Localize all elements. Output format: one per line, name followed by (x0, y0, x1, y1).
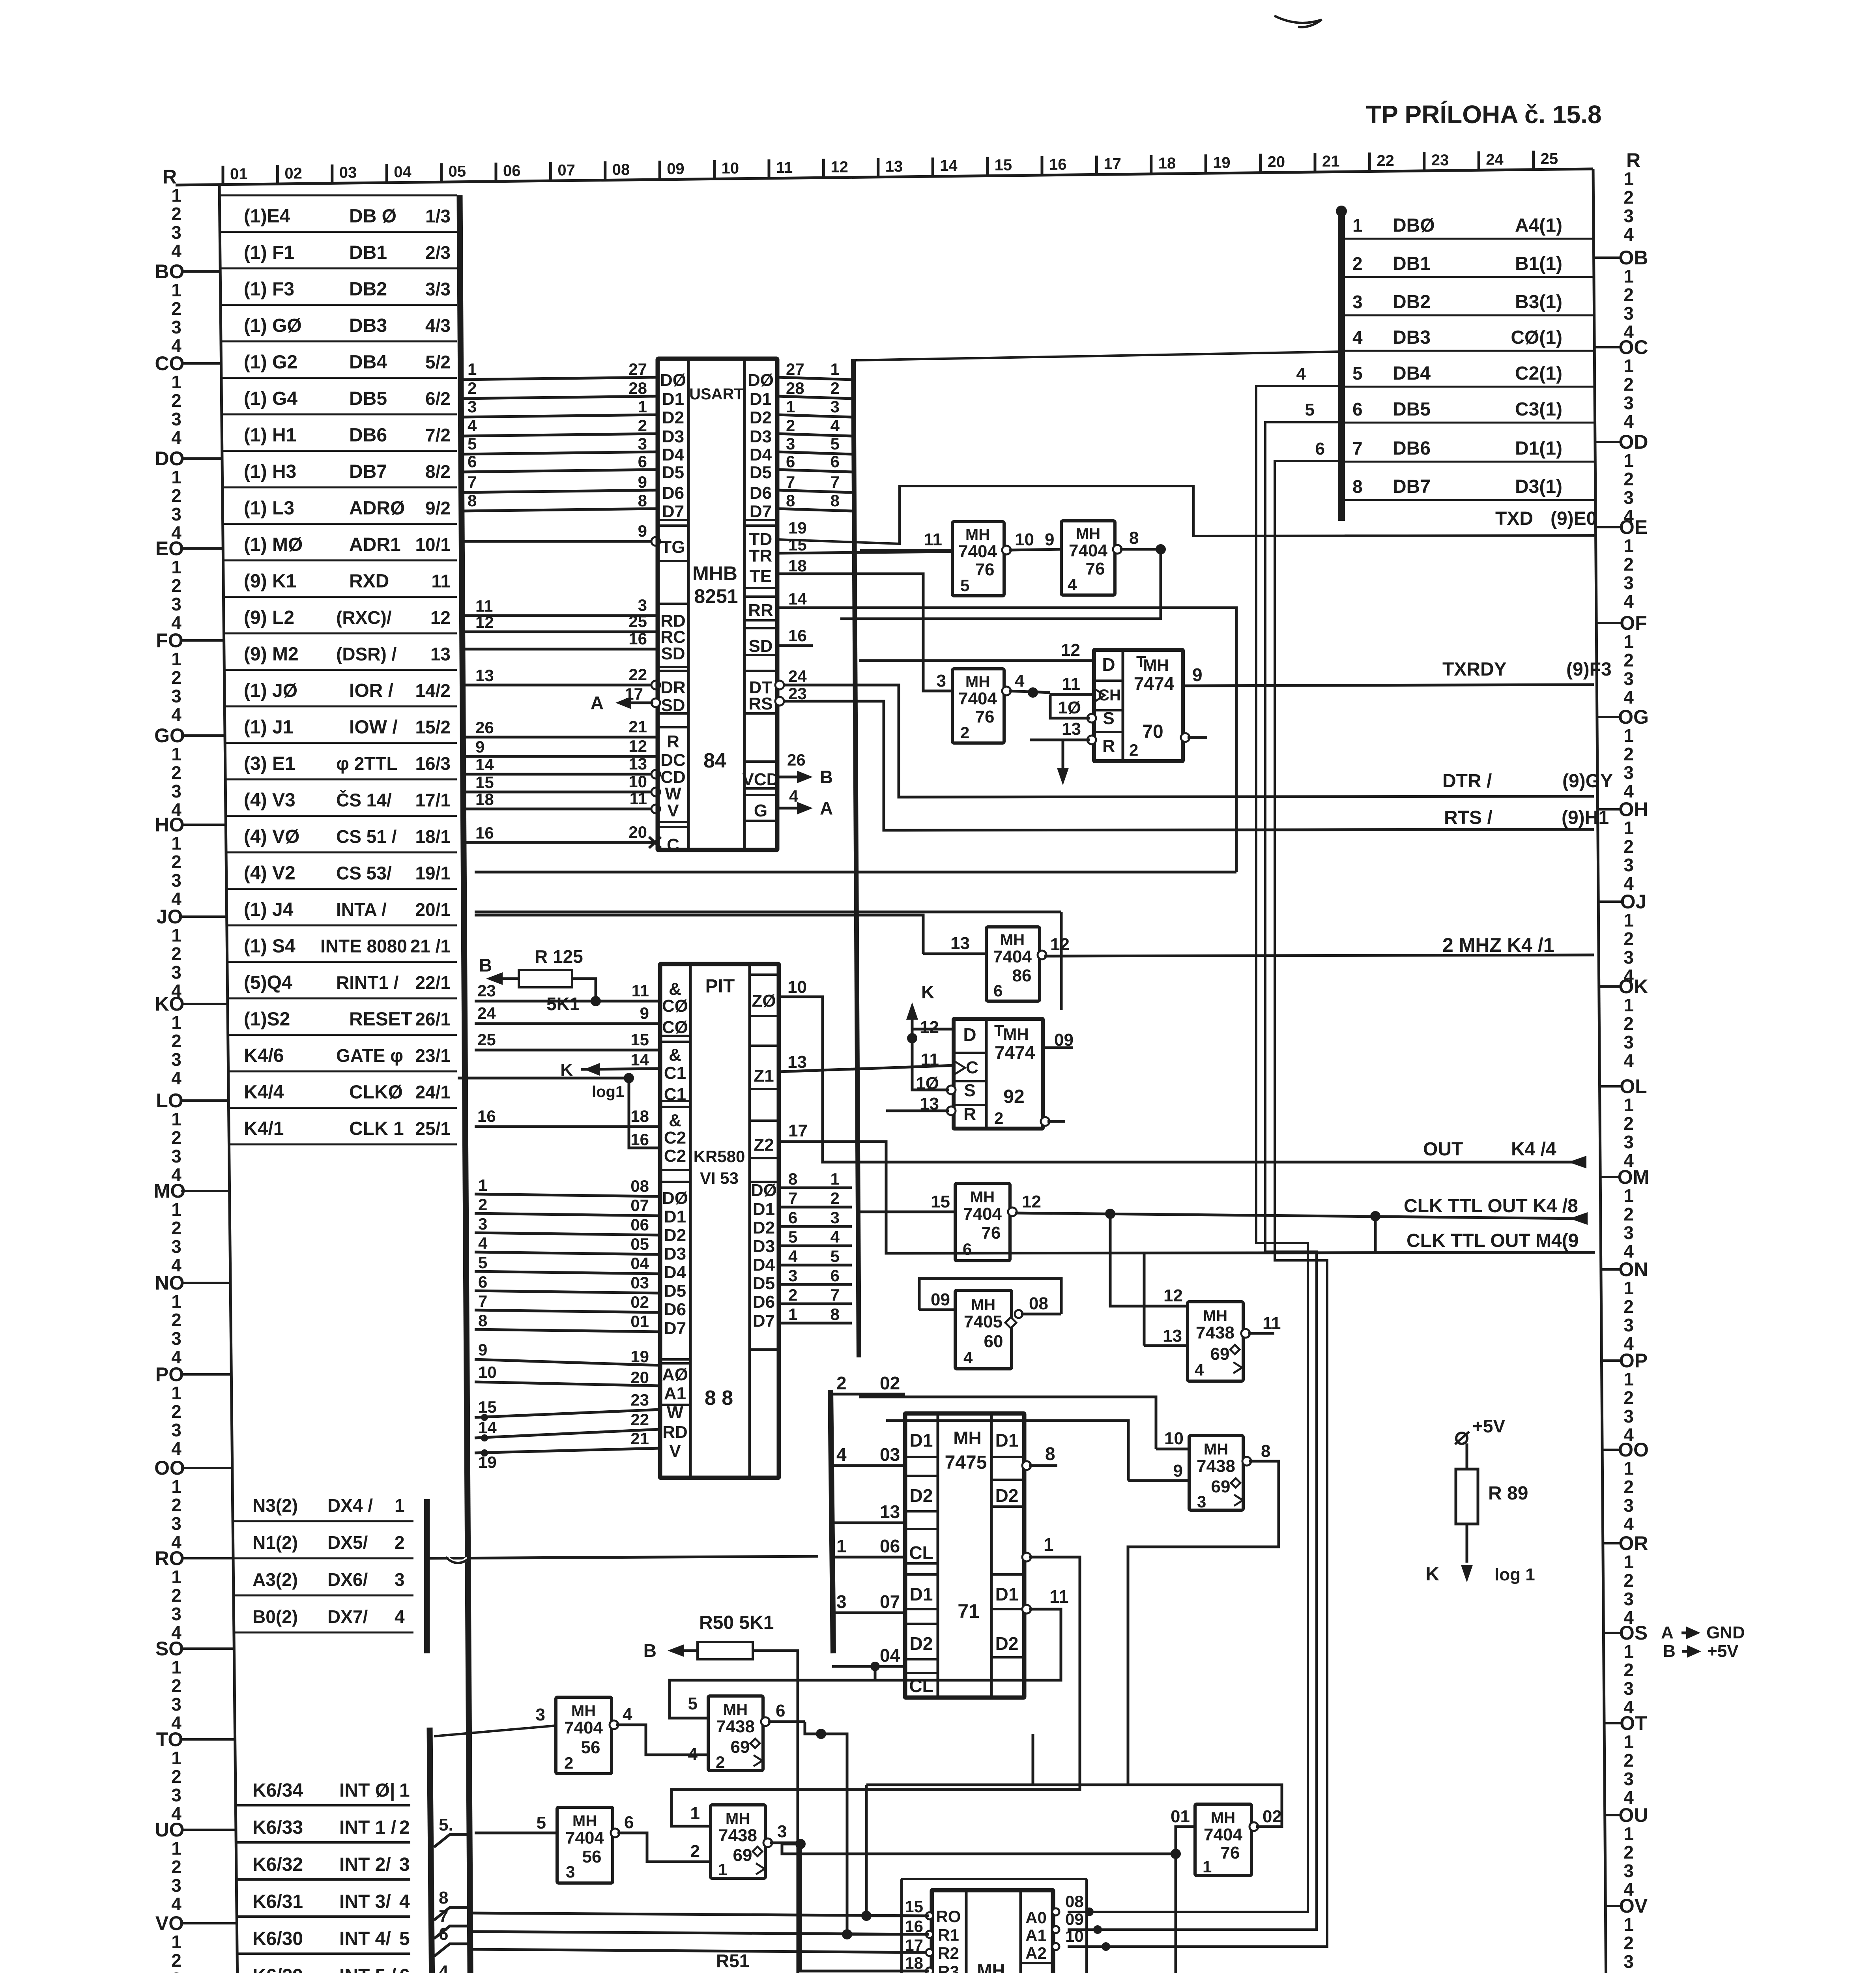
svg-text:18: 18 (905, 1954, 923, 1972)
svg-text:W: W (665, 784, 681, 803)
svg-text:MH: MH (965, 526, 990, 543)
svg-text:W: W (667, 1403, 683, 1422)
wire gate4 out down to 7474 D (1160, 549, 1162, 568)
svg-text:A: A (1661, 1623, 1674, 1642)
svg-text:7438: 7438 (1196, 1323, 1234, 1342)
net INT 3/ input row (237, 1915, 410, 1918)
wires bus to PIT A0 A1 (475, 1359, 660, 1365)
svg-text:2: 2 (171, 1585, 181, 1606)
svg-text:3: 3 (1623, 303, 1634, 324)
svg-text:ADR1: ADR1 (349, 534, 401, 555)
svg-text:1: 1 (788, 1305, 797, 1323)
svg-text:D5: D5 (750, 463, 772, 482)
svg-text:2: 2 (830, 379, 840, 397)
svg-text:12: 12 (1022, 1192, 1041, 1211)
svg-text:SD: SD (748, 636, 772, 656)
svg-text:6: 6 (788, 1208, 797, 1227)
svg-text:DBØ: DBØ (1393, 215, 1435, 236)
svg-text:CH: CH (1098, 687, 1121, 704)
svg-text:8: 8 (786, 491, 795, 510)
svg-text:1: 1 (1623, 1278, 1634, 1298)
svg-text:CO: CO (155, 352, 185, 374)
svg-text:1: 1 (478, 1176, 487, 1194)
svg-text:3: 3 (399, 1854, 410, 1875)
svg-text:3: 3 (1352, 292, 1363, 312)
svg-text:4: 4 (1623, 1514, 1634, 1534)
svg-text:D2: D2 (995, 1485, 1019, 1506)
svg-text:GO: GO (154, 724, 185, 747)
wires INTA INTE long (475, 911, 1061, 913)
svg-text:07: 07 (557, 161, 575, 179)
svg-text:MH: MH (971, 1296, 995, 1314)
svg-text:D3(1): D3(1) (1515, 476, 1562, 497)
svg-text:S: S (964, 1081, 975, 1100)
svg-text:4: 4 (171, 1438, 181, 1459)
svg-text:(1)S2: (1)S2 (244, 1009, 290, 1030)
svg-text:D1: D1 (995, 1584, 1019, 1604)
svg-text:MH: MH (726, 1810, 750, 1827)
svg-text:3: 3 (638, 596, 647, 614)
wires USART right D0-D7 to bus2 (777, 377, 852, 380)
svg-text:D4: D4 (753, 1255, 775, 1275)
svg-text:2/3: 2/3 (425, 242, 451, 263)
svg-text:B: B (643, 1640, 657, 1661)
svg-text:3: 3 (468, 397, 477, 416)
svg-text:5/2: 5/2 (425, 352, 451, 373)
net DB7 output row (1345, 499, 1595, 501)
svg-text:6: 6 (830, 452, 840, 471)
wires 7474-2 inputs (859, 659, 1094, 662)
right DB output table bus bar (1338, 209, 1345, 521)
svg-text:1: 1 (171, 1291, 181, 1312)
svg-text:03: 03 (630, 1273, 649, 1292)
net DB3 output row (1345, 350, 1594, 352)
svg-text:TXD: TXD (1495, 508, 1533, 529)
svg-text:6: 6 (468, 452, 477, 471)
svg-text:R: R (667, 732, 679, 751)
bus bar vertical main (460, 195, 472, 1973)
svg-text:DØ: DØ (662, 1189, 688, 1208)
svg-text:B: B (1663, 1642, 1676, 1661)
svg-text:4: 4 (171, 427, 181, 448)
svg-text:V: V (669, 1441, 681, 1461)
svg-text:1: 1 (1623, 995, 1634, 1015)
svg-text:25/1: 25/1 (415, 1118, 451, 1139)
svg-text:3: 3 (1623, 1222, 1634, 1243)
svg-text:C3(1): C3(1) (1515, 399, 1562, 420)
svg-text:2: 2 (171, 1495, 181, 1515)
svg-text:2: 2 (171, 943, 181, 964)
svg-text:MH: MH (1211, 1809, 1235, 1827)
svg-text:MH: MH (1000, 931, 1025, 949)
wire nest 7404-1 input down to 7474-70 CH (1176, 1827, 1195, 1854)
svg-text:3: 3 (836, 1591, 847, 1612)
svg-text:LO: LO (156, 1089, 183, 1112)
svg-text:D: D (1102, 654, 1115, 675)
svg-text:A0: A0 (1025, 1908, 1047, 1927)
7475 out 8 (1022, 1461, 1031, 1470)
svg-text:(9)H1: (9)H1 (1562, 807, 1609, 828)
svg-text:5.: 5. (439, 1815, 453, 1834)
svg-text:10: 10 (628, 772, 647, 791)
svg-text:VO: VO (155, 1912, 184, 1934)
svg-text:10: 10 (478, 1363, 497, 1381)
svg-text:1: 1 (1203, 1857, 1212, 1876)
svg-text:D2: D2 (995, 1633, 1019, 1654)
svg-text:GND: GND (1706, 1623, 1745, 1642)
svg-text:K4/1: K4/1 (244, 1118, 284, 1139)
svg-text:TXRDY: TXRDY (1442, 659, 1507, 680)
svg-text:DX5/: DX5/ (327, 1532, 368, 1553)
net DB6 output row (1345, 461, 1595, 463)
svg-text:18: 18 (475, 790, 494, 809)
wire nest R50 to R5 (782, 1844, 1176, 1854)
svg-text:OUT: OUT (1423, 1139, 1463, 1160)
svg-text:log1: log1 (592, 1083, 624, 1101)
svg-text:OS: OS (1619, 1622, 1648, 1644)
svg-text:C: C (667, 835, 679, 855)
frame border (176, 169, 1593, 185)
svg-text:07: 07 (630, 1196, 649, 1215)
svg-text:RS: RS (748, 694, 772, 713)
svg-text:21: 21 (628, 717, 647, 736)
svg-text:UO: UO (155, 1819, 185, 1841)
svg-text:HO: HO (155, 814, 185, 836)
svg-text:DØ: DØ (748, 371, 774, 390)
svg-text:ADRØ: ADRØ (349, 498, 405, 519)
svg-text:1: 1 (1623, 1552, 1634, 1572)
svg-text:5: 5 (1305, 400, 1315, 419)
svg-text:20/1: 20/1 (415, 899, 451, 920)
wire nest out3 to R3 (801, 1844, 929, 1971)
svg-text:MH: MH (977, 1960, 1005, 1973)
svg-text:INT 3/: INT 3/ (339, 1891, 391, 1912)
svg-text:3: 3 (171, 222, 181, 243)
svg-text:4: 4 (468, 416, 477, 435)
wire A1 route up to DB5 (1068, 422, 1341, 1930)
svg-text:D7: D7 (750, 502, 772, 521)
inverter MH7404 56 gate3 (557, 1807, 613, 1883)
svg-text:12: 12 (628, 737, 647, 755)
svg-text:04: 04 (394, 163, 411, 181)
svg-text:1: 1 (1623, 168, 1634, 189)
svg-text:01: 01 (630, 1312, 649, 1331)
svg-text:6: 6 (1352, 399, 1363, 419)
svg-text:8/2: 8/2 (425, 461, 451, 482)
svg-text:CØ: CØ (662, 996, 688, 1016)
svg-text:28: 28 (786, 379, 804, 397)
svg-text:3: 3 (1623, 1406, 1634, 1426)
svg-text:(1) G2: (1) G2 (244, 352, 297, 373)
svg-text:02: 02 (284, 165, 302, 182)
wires bus to PIT control (475, 1000, 660, 1003)
wire A0 route up to DB4 (1068, 386, 1341, 1912)
inverter MH7404 76 gate1 (1195, 1804, 1251, 1876)
svg-text:7: 7 (830, 1286, 840, 1304)
svg-text:1: 1 (1623, 910, 1634, 930)
stubs INT bar to bus (434, 1834, 469, 1847)
svg-text:12: 12 (1163, 1286, 1183, 1305)
svg-text:RD: RD (662, 1423, 688, 1442)
svg-text:3: 3 (171, 594, 181, 614)
net DB4 output row (1345, 386, 1595, 388)
svg-text:7: 7 (830, 473, 840, 491)
svg-text:B0(2): B0(2) (253, 1606, 298, 1627)
svg-text:11: 11 (1263, 1314, 1281, 1333)
svg-text:01: 01 (1171, 1807, 1190, 1826)
svg-text:1: 1 (718, 1860, 727, 1879)
svg-text:2: 2 (960, 723, 969, 742)
pin Q 9 / net TXRDY (1183, 685, 1594, 686)
svg-text:(1) H3: (1) H3 (244, 461, 296, 482)
svg-text:14: 14 (940, 157, 958, 174)
svg-text:1: 1 (690, 1804, 700, 1823)
svg-text:+5V: +5V (1707, 1642, 1739, 1661)
svg-text:15: 15 (905, 1897, 923, 1916)
svg-text:1: 1 (171, 833, 181, 854)
svg-text:OH: OH (1619, 798, 1648, 820)
svg-text:D: D (963, 1024, 976, 1045)
svg-text:1: 1 (171, 1567, 181, 1587)
svg-text:05: 05 (630, 1235, 649, 1253)
svg-text:OO: OO (154, 1457, 185, 1479)
svg-text:15: 15 (475, 773, 494, 792)
svg-text:IOW /: IOW / (349, 717, 398, 738)
svg-text:6: 6 (1315, 439, 1325, 459)
svg-text:3: 3 (1623, 393, 1634, 413)
svg-text:3: 3 (171, 1236, 181, 1257)
svg-text:1: 1 (171, 1932, 181, 1952)
svg-text:9: 9 (475, 738, 484, 756)
svg-text:3: 3 (171, 504, 181, 524)
svg-text:9: 9 (640, 1004, 649, 1022)
wire CL 13 from gate (831, 1522, 834, 1524)
svg-text:3: 3 (478, 1215, 487, 1233)
svg-text:8: 8 (1352, 476, 1363, 497)
svg-text:6: 6 (638, 452, 647, 471)
svg-text:3: 3 (937, 671, 946, 691)
svg-text:2: 2 (171, 1675, 181, 1696)
svg-text:16: 16 (1049, 156, 1067, 173)
svg-text:13: 13 (787, 1052, 807, 1072)
svg-text:&: & (669, 1045, 681, 1065)
svg-text:8251: 8251 (694, 585, 738, 607)
svg-text:69: 69 (731, 1737, 750, 1757)
svg-text:71: 71 (958, 1600, 980, 1622)
svg-text:69: 69 (1211, 1477, 1231, 1496)
svg-text:15: 15 (630, 1030, 649, 1049)
svg-text:7474: 7474 (995, 1042, 1035, 1063)
net INT 4/ input row (237, 1952, 410, 1955)
svg-text:1: 1 (786, 397, 795, 416)
svg-text:2: 2 (994, 1109, 1003, 1127)
svg-text:3: 3 (171, 317, 181, 337)
svg-text:2: 2 (478, 1195, 487, 1214)
svg-text:7: 7 (786, 473, 795, 491)
svg-text:14: 14 (630, 1050, 649, 1069)
svg-text:D3: D3 (753, 1237, 775, 1256)
svg-text:69: 69 (733, 1846, 752, 1865)
svg-text:2: 2 (171, 485, 181, 506)
svg-text:PO: PO (155, 1363, 184, 1385)
svg-text:K6/31: K6/31 (253, 1891, 303, 1912)
svg-text:DB5: DB5 (1393, 399, 1431, 420)
svg-text:OF: OF (1620, 612, 1647, 634)
svg-text:R 89: R 89 (1488, 1483, 1528, 1504)
svg-text:MH: MH (1003, 1025, 1029, 1043)
DX input table (233, 1520, 413, 1522)
svg-text:16: 16 (905, 1917, 923, 1936)
svg-text:28: 28 (628, 379, 647, 397)
svg-text:4: 4 (1623, 687, 1634, 708)
svg-text:MH: MH (1203, 1307, 1227, 1325)
svg-text:15: 15 (931, 1192, 950, 1211)
svg-text:R51: R51 (716, 1951, 749, 1971)
svg-text:4: 4 (399, 1891, 410, 1912)
svg-text:7404: 7404 (958, 542, 997, 561)
svg-text:7404: 7404 (993, 947, 1032, 966)
svg-text:SD: SD (661, 644, 685, 663)
svg-text:22: 22 (1377, 152, 1394, 170)
svg-text:6: 6 (963, 1240, 972, 1258)
svg-text:D7: D7 (753, 1311, 775, 1331)
svg-text:(9) M2: (9) M2 (244, 644, 299, 665)
svg-text:RINT1 /: RINT1 / (336, 972, 399, 993)
svg-text:3: 3 (171, 1785, 181, 1805)
svg-text:OB: OB (1619, 247, 1648, 269)
svg-text:21 /1: 21 /1 (410, 936, 451, 957)
svg-text:14: 14 (478, 1418, 497, 1437)
svg-text:08: 08 (1029, 1294, 1048, 1313)
wires bus to PIT W RD V (475, 1410, 660, 1417)
svg-text:2: 2 (171, 1401, 181, 1422)
svg-text:1: 1 (830, 360, 840, 378)
svg-text:76: 76 (975, 560, 995, 579)
svg-text:7404: 7404 (564, 1718, 603, 1737)
svg-text:2: 2 (171, 1310, 181, 1330)
svg-text:05: 05 (449, 163, 466, 180)
svg-text:1: 1 (1044, 1534, 1054, 1555)
svg-text:C2(1): C2(1) (1515, 363, 1562, 384)
svg-text:8: 8 (1261, 1441, 1270, 1461)
svg-text:C1: C1 (664, 1063, 686, 1083)
svg-text:20: 20 (630, 1368, 649, 1387)
svg-text:B: B (479, 955, 492, 975)
wires bus to PIT D0-D7 (475, 1194, 660, 1196)
svg-text:DB2: DB2 (1393, 292, 1431, 313)
svg-text:4: 4 (1623, 224, 1634, 245)
svg-text:1: 1 (171, 1012, 181, 1033)
svg-text:DB Ø: DB Ø (349, 206, 397, 227)
svg-text:K4/6: K4/6 (244, 1045, 284, 1066)
wire nest 7404-1 loop (1033, 1734, 1282, 1827)
svg-text:8: 8 (830, 491, 840, 510)
wire nest h4523 to R0 (866, 1785, 929, 1916)
svg-text:7404: 7404 (958, 689, 997, 708)
svg-text:8: 8 (439, 1888, 448, 1907)
nand MH7438 69 gate1 (708, 1696, 763, 1771)
svg-text:14: 14 (788, 590, 807, 608)
svg-text:9/2: 9/2 (425, 498, 451, 519)
svg-text:2: 2 (830, 1189, 840, 1207)
svg-text:K6/33: K6/33 (253, 1817, 303, 1838)
wires bus to USART control pins (462, 540, 658, 543)
svg-text:3: 3 (171, 1604, 181, 1624)
svg-text:13: 13 (628, 754, 647, 773)
svg-text:&: & (669, 1111, 681, 1130)
svg-text:CLK 1: CLK 1 (349, 1118, 404, 1139)
svg-text:09: 09 (667, 160, 685, 178)
svg-text:MH: MH (572, 1812, 597, 1830)
svg-text:G: G (754, 801, 767, 820)
net INT 1 / input row (236, 1841, 410, 1844)
svg-text:19: 19 (1213, 154, 1231, 171)
svg-text:3: 3 (1623, 1951, 1634, 1972)
svg-text:RO: RO (155, 1547, 185, 1569)
IC MH3214 68 outer box (902, 1879, 1087, 1973)
svg-text:(1) J1: (1) J1 (244, 717, 293, 738)
wires bus to USART D0-D7 (462, 377, 658, 380)
svg-text:MH: MH (1204, 1441, 1228, 1458)
svg-text:D7: D7 (664, 1319, 686, 1338)
svg-text:11: 11 (431, 571, 451, 592)
svg-text:1: 1 (638, 397, 647, 416)
svg-text:02: 02 (1263, 1807, 1282, 1826)
svg-text:8: 8 (830, 1305, 840, 1323)
svg-text:84: 84 (703, 749, 726, 772)
svg-text:2: 2 (171, 1950, 181, 1971)
svg-text:23: 23 (1431, 152, 1449, 169)
3214 outputs A0 A1 A2 (1052, 1908, 1059, 1915)
svg-text:92: 92 (1003, 1086, 1024, 1107)
left input signal table (219, 195, 457, 197)
svg-text:5: 5 (788, 1228, 797, 1246)
svg-text:OM: OM (1618, 1166, 1650, 1188)
svg-text:OJ: OJ (1620, 891, 1647, 913)
svg-text:ZØ: ZØ (752, 991, 776, 1011)
svg-text:C1: C1 (664, 1085, 686, 1104)
svg-text:7474: 7474 (1134, 673, 1175, 694)
svg-text:16: 16 (475, 824, 494, 842)
svg-text:R3: R3 (938, 1962, 959, 1973)
svg-text:DB1: DB1 (1393, 253, 1431, 274)
svg-text:(1) G4: (1) G4 (244, 388, 297, 409)
svg-text:(1) J4: (1) J4 (244, 899, 294, 920)
svg-text:86: 86 (1012, 966, 1032, 985)
svg-text:TR: TR (749, 546, 772, 565)
svg-text:1: 1 (1623, 631, 1634, 652)
svg-text:MH: MH (970, 1189, 995, 1206)
svg-text:(RXC)/: (RXC)/ (336, 607, 392, 628)
svg-text:3: 3 (566, 1863, 575, 1881)
svg-text:06: 06 (503, 162, 521, 180)
svg-text:D2: D2 (910, 1633, 933, 1654)
svg-text:MH: MH (1076, 525, 1100, 543)
svg-text:16: 16 (477, 1107, 496, 1125)
svg-text:12: 12 (475, 613, 494, 631)
svg-text:D6: D6 (753, 1292, 775, 1312)
svg-text:D2: D2 (662, 408, 684, 427)
svg-text:1: 1 (395, 1495, 405, 1516)
svg-text:2: 2 (1623, 285, 1634, 305)
svg-text:K6/30: K6/30 (253, 1928, 303, 1949)
svg-text:7404: 7404 (1204, 1825, 1242, 1844)
svg-text:1: 1 (1623, 1641, 1634, 1662)
svg-text:18: 18 (788, 556, 807, 575)
svg-text:2: 2 (716, 1753, 725, 1771)
svg-text:3: 3 (1623, 1861, 1634, 1881)
wire DB3 C0 long feed (856, 352, 1341, 360)
